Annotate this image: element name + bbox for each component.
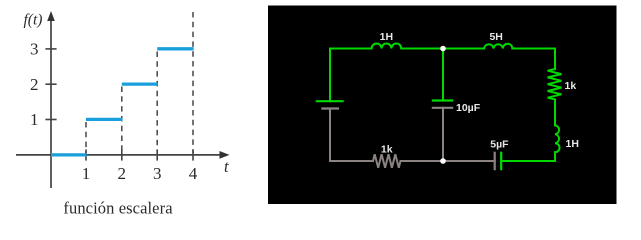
step segment f=0 bbox=[51, 153, 87, 156]
svg-text:1H: 1H bbox=[566, 138, 579, 150]
svg-text:5µF: 5µF bbox=[490, 138, 509, 150]
tick f=3 bbox=[45, 48, 56, 50]
tick t=2 bbox=[121, 149, 123, 160]
svg-text:1k: 1k bbox=[565, 80, 577, 92]
wire top-left horizontal bbox=[330, 49, 372, 102]
wire bottom gray middle segment bbox=[401, 160, 444, 162]
svg-text:t: t bbox=[224, 157, 229, 176]
svg-text:3: 3 bbox=[153, 164, 162, 183]
svg-text:10µF: 10µF bbox=[456, 102, 481, 114]
capacitor C1 10uF green plate bbox=[432, 99, 453, 101]
svg-text:1k: 1k bbox=[381, 144, 393, 156]
dashed guide t=4 bbox=[192, 12, 194, 153]
step segment f=2 bbox=[122, 82, 158, 85]
wire bottom-left gray corner bbox=[330, 109, 373, 162]
x-axis bbox=[16, 154, 224, 156]
capacitor C2 5uF gray plate bbox=[494, 152, 496, 171]
inductor L2 5H (top right) bbox=[484, 44, 512, 49]
svg-text:f(t): f(t) bbox=[24, 12, 43, 29]
svg-text:1: 1 bbox=[30, 110, 39, 129]
tick t=3 bbox=[156, 149, 158, 160]
tick f=1 bbox=[45, 119, 56, 121]
wire between R1 and L3 bbox=[554, 99, 556, 125]
black panel background bbox=[268, 6, 617, 205]
battery V1 negative plate (gray, short) bbox=[321, 107, 339, 109]
svg-text:2: 2 bbox=[118, 164, 127, 183]
wire bottom-right corner bbox=[503, 152, 556, 161]
capacitor C2 5uF green plate bbox=[500, 152, 502, 171]
wire top middle bbox=[401, 48, 484, 50]
capacitor C1 10uF gray plate bbox=[432, 107, 453, 109]
svg-text:4: 4 bbox=[189, 164, 198, 183]
dashed guide t=2 bbox=[121, 87, 123, 154]
wire to top-right corner and down bbox=[512, 49, 555, 70]
y-axis bbox=[50, 17, 52, 188]
tick t=1 bbox=[85, 149, 87, 160]
svg-text:1: 1 bbox=[82, 164, 91, 183]
svg-text:1H: 1H bbox=[380, 31, 393, 43]
wire middle gray stem bbox=[442, 108, 444, 161]
resistor R1 1k (right, vertical) bbox=[548, 69, 562, 99]
inductor L1 1H (top left) bbox=[372, 44, 402, 49]
battery V1 positive plate (green, long) bbox=[316, 100, 344, 102]
wire middle green stem bbox=[442, 49, 444, 101]
inductor L3 1H (right, vertical) bbox=[555, 125, 560, 152]
dashed guide t=1 bbox=[85, 122, 87, 153]
tick f=2 bbox=[45, 83, 56, 85]
wire bottom gray right segment bbox=[443, 160, 495, 162]
step segment f=3 bbox=[157, 47, 193, 50]
junction node top bbox=[440, 46, 446, 52]
y-axis arrowhead bbox=[47, 11, 55, 21]
resistor R2 1k (bottom, gray) bbox=[373, 154, 401, 167]
svg-text:3: 3 bbox=[30, 40, 39, 59]
tick t=4 bbox=[192, 149, 194, 160]
svg-text:función escalera: función escalera bbox=[63, 199, 173, 218]
svg-text:2: 2 bbox=[30, 75, 39, 94]
dashed guide t=3 bbox=[156, 52, 158, 154]
x-axis arrowhead bbox=[220, 151, 230, 159]
junction node bottom bbox=[440, 158, 446, 164]
step segment f=1 bbox=[86, 118, 122, 121]
svg-text:5H: 5H bbox=[489, 31, 502, 43]
